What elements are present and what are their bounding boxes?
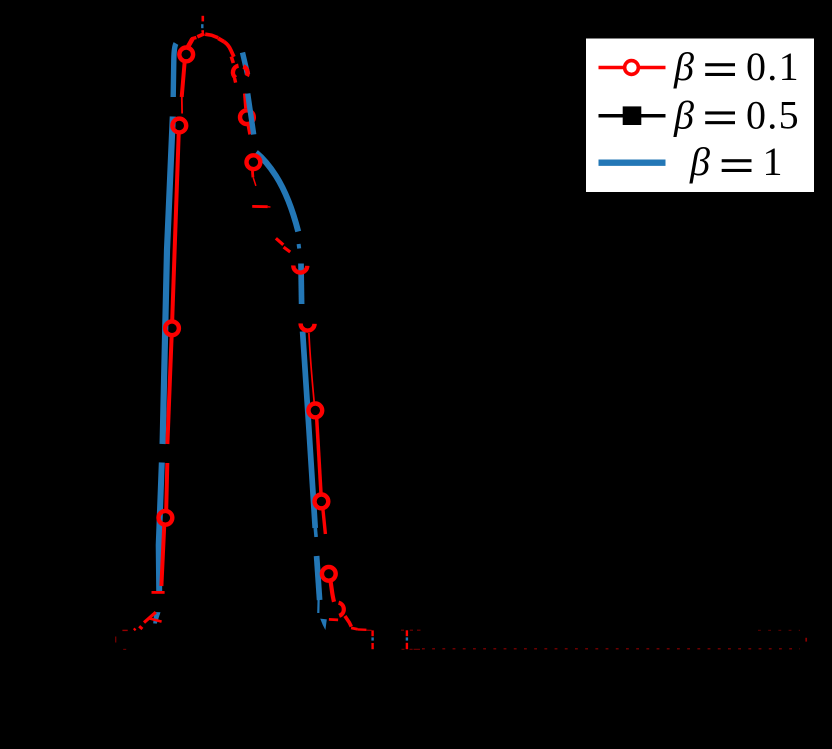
wire blue tail step1 xyxy=(371,637,373,640)
marker red circle M10 xyxy=(308,404,322,418)
wire red below M7 xyxy=(251,170,254,177)
wire red left limb sliver xyxy=(181,97,183,114)
wire red far tail dotted upper xyxy=(758,629,800,631)
wire red left limb lower2 xyxy=(161,526,164,586)
marker red circle M13 crescent xyxy=(339,603,344,616)
wire red left tail dot2 xyxy=(134,628,136,630)
wire red left foot diag1 xyxy=(144,612,156,622)
wire red step1 upper xyxy=(371,630,373,636)
legend blue line sample xyxy=(599,160,666,166)
legend red line sample xyxy=(599,66,666,70)
wire blue right limb mid2 xyxy=(303,332,316,529)
curve beta=1 (blue, thick) xyxy=(153,24,407,640)
marker red circle M8 half xyxy=(293,265,307,272)
wire red apex left dash1 xyxy=(197,34,204,37)
wire red step2 upper xyxy=(406,630,408,636)
marker red circle M11 xyxy=(315,495,329,509)
wire red apex right arm a xyxy=(205,34,218,38)
wire blue left limb foot wedge xyxy=(153,612,160,624)
wire blue left limb top xyxy=(173,44,176,98)
wire red left foot diag2 xyxy=(149,618,162,621)
legend box xyxy=(586,39,814,193)
marker red circle M2 xyxy=(172,119,186,133)
legend equals row2 xyxy=(705,111,735,114)
wire red right mid sliver xyxy=(309,333,314,404)
wire red below M11 xyxy=(323,509,326,534)
legend black line sample xyxy=(599,114,666,118)
wire red below M12 xyxy=(331,582,334,602)
wire red foot dash xyxy=(329,618,338,621)
marker red circle M9 half xyxy=(301,323,315,330)
wire red foot diag xyxy=(345,616,351,627)
wire blue right limb upper2 (over red) xyxy=(248,94,254,135)
wire red left foot dash xyxy=(152,591,165,594)
wire red below M6 xyxy=(248,125,250,134)
wire red foot flat2 xyxy=(358,628,367,631)
marker red circle M5 left arc xyxy=(233,66,239,78)
marker red circle M7 xyxy=(247,155,261,169)
legend black square marker xyxy=(623,106,642,125)
wire blue right limb lower xyxy=(317,556,320,600)
wire red faint ledge b xyxy=(402,648,421,650)
marker red circle M3 xyxy=(165,321,179,335)
wire red apex left dash3 xyxy=(188,39,193,48)
marker red circle M12 xyxy=(322,567,336,581)
wire blue left limb lower xyxy=(159,463,162,592)
wire red foot hairline xyxy=(367,629,372,631)
legend equals row3 xyxy=(722,159,752,162)
legend red circle marker xyxy=(625,61,639,75)
curve beta=0.1 (red, circle markers) xyxy=(116,16,807,650)
wire red left tail dot1 xyxy=(139,626,142,629)
wire red M5 tail xyxy=(235,78,236,82)
wire red left tail faint drop xyxy=(115,637,117,643)
wire red far tail dotted lower xyxy=(422,648,800,650)
wire red faint ledge a xyxy=(401,629,421,631)
wire blue right limb foot wedge xyxy=(320,619,327,630)
wire red left limb mid xyxy=(172,134,179,321)
wire red step2 lower xyxy=(406,643,408,649)
wire red into M6 xyxy=(245,94,246,109)
marker red circle M6 xyxy=(240,110,254,124)
wire blue apex dash xyxy=(201,24,203,28)
wire red left limb upper xyxy=(182,63,185,98)
wire red apex right arm b xyxy=(218,38,224,41)
wire blue tail step2 xyxy=(406,637,408,640)
wire blue knee dash xyxy=(297,244,302,249)
wire red apex left dash2 xyxy=(191,38,196,39)
wire red step1 lower xyxy=(371,643,373,649)
wire blue knee arc xyxy=(256,153,298,232)
marker red circle M5 right arc xyxy=(243,66,247,76)
wire red shoulder diag1 xyxy=(276,238,283,245)
wire red tail end tick xyxy=(805,638,807,642)
wire blue left limb mid xyxy=(163,117,173,445)
wire red shoulder dash sliver xyxy=(268,206,271,208)
wire blue right limb upper1 xyxy=(243,53,248,75)
legend equals row1 xyxy=(705,63,735,66)
wire red apex dot xyxy=(201,30,204,32)
wire red left tail faint dot low xyxy=(123,648,126,650)
wire blue right limb mid1 xyxy=(298,264,304,305)
wire red left tail faint dash xyxy=(122,629,127,631)
wire red left limb lower resumed xyxy=(166,463,167,510)
wire red below M7 sliver xyxy=(253,178,256,186)
wire red shoulder dash xyxy=(252,205,268,208)
wire red apex right arm c xyxy=(224,42,234,57)
marker red circle M4 xyxy=(159,511,173,525)
wire blue right limb mid2 tip xyxy=(313,528,317,537)
wire red shoulder diag2 xyxy=(284,247,291,252)
marker red circle M1 xyxy=(179,48,193,62)
wire red left limb lower xyxy=(167,337,171,445)
legend frame xyxy=(586,39,814,193)
wire red right lower xyxy=(317,419,321,494)
wire red into M5 xyxy=(231,57,233,64)
wire blue right limb foot sliver xyxy=(317,600,320,613)
wire red apex spike xyxy=(202,16,205,22)
wire red foot flat1 xyxy=(351,628,358,629)
